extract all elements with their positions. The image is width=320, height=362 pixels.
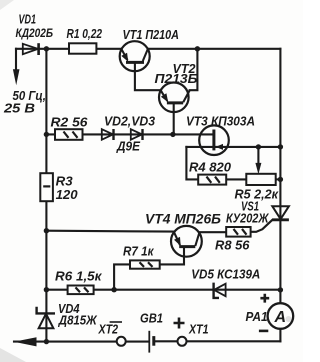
svg-text:A: A xyxy=(274,309,287,326)
svg-text:VT1 П210А: VT1 П210А xyxy=(123,28,180,42)
svg-text:КД202Б: КД202Б xyxy=(16,26,54,40)
svg-text:R2 56: R2 56 xyxy=(51,115,89,129)
svg-text:R6 1,5к: R6 1,5к xyxy=(55,269,102,283)
svg-text:КУ202Ж: КУ202Ж xyxy=(226,211,270,225)
svg-text:ХТ1: ХТ1 xyxy=(188,323,208,337)
svg-text:R4 820: R4 820 xyxy=(189,160,231,174)
svg-text:120: 120 xyxy=(56,188,78,202)
svg-text:R8 56: R8 56 xyxy=(215,239,251,253)
svg-text:П213Б: П213Б xyxy=(155,72,198,86)
svg-text:VT3 КП303А: VT3 КП303А xyxy=(186,114,255,128)
svg-text:ХТ2: ХТ2 xyxy=(98,323,118,337)
svg-text:25 В: 25 В xyxy=(3,101,35,115)
svg-text:Д9Е: Д9Е xyxy=(116,139,141,153)
svg-text:VD2,VD3: VD2,VD3 xyxy=(104,114,155,128)
svg-text:VD5 КС139А: VD5 КС139А xyxy=(191,267,260,281)
svg-text:R1 0,22: R1 0,22 xyxy=(67,27,103,41)
svg-text:PA1: PA1 xyxy=(246,310,268,324)
svg-text:R3: R3 xyxy=(56,174,73,188)
svg-text:Д815Ж: Д815Ж xyxy=(58,313,98,327)
svg-text:R7 1к: R7 1к xyxy=(123,245,154,259)
svg-text:VT4 МП26Б: VT4 МП26Б xyxy=(145,212,221,227)
svg-text:VD1: VD1 xyxy=(19,13,37,27)
svg-text:GB1: GB1 xyxy=(140,311,163,325)
